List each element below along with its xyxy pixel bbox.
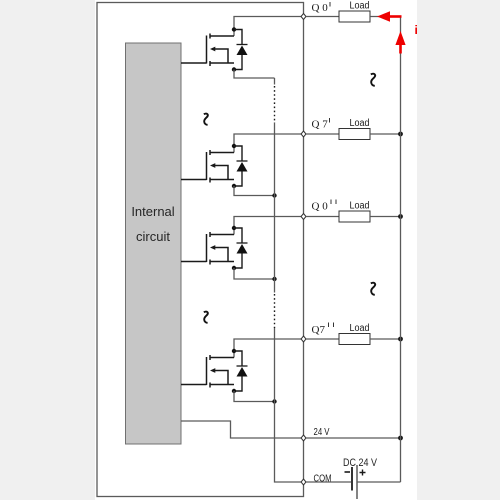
+24V bus vertical wire (400, 17, 402, 483)
svg-text:Q7: Q7 (312, 324, 326, 336)
junction dot drain M4 (232, 349, 236, 353)
terminal Q0'' (301, 200, 336, 220)
terminal Q7'' (301, 323, 334, 343)
terminal 24V (301, 427, 330, 441)
svg-text:Q 7: Q 7 (312, 119, 329, 131)
terminal Q7' (301, 118, 330, 137)
MOSFET M2 (181, 150, 234, 183)
wire Q7'' terminal to load R4 (306, 338, 339, 340)
MOSFET M3 (181, 232, 234, 265)
svg-text:Load: Load (350, 201, 370, 212)
wire source M2 to COM bus (234, 186, 275, 196)
MOSFET M1 (181, 34, 234, 67)
wire Q0' terminal to load R1 (306, 16, 339, 18)
svg-text:Internal: Internal (131, 204, 174, 219)
wire load R2 to +24V bus (370, 133, 401, 135)
junction dot source M3 (232, 266, 236, 270)
dotted continuation wire cells 3-4 (274, 294, 276, 328)
COM bus vertical wire (275, 78, 302, 482)
junction dot drain M2 (232, 144, 236, 148)
junction dot bus Q0'' (398, 214, 403, 219)
wire Q0'' terminal to load R3 (306, 216, 339, 218)
diode D1 (234, 30, 248, 70)
MOSFET M4 (181, 355, 234, 388)
svg-text:Load: Load (350, 118, 370, 129)
load R3 (339, 201, 370, 223)
svg-text:Q 0: Q 0 (312, 2, 329, 14)
junction dot drain M1 (232, 27, 236, 31)
break mark squiggle left upper (204, 114, 208, 125)
wire Q0' drain to terminal (234, 17, 304, 37)
diode D2 (234, 146, 248, 186)
wire load R3 to +24V bus (370, 216, 401, 218)
junction dot drain M3 (232, 226, 236, 230)
svg-text:Load: Load (350, 1, 370, 12)
svg-text:i: i (415, 23, 418, 37)
internal circuit block U1 (126, 43, 182, 444)
break mark squiggle right lower (371, 283, 375, 295)
junction dot bus Q7'' (398, 337, 403, 342)
svg-text:COM: COM (314, 474, 332, 485)
wire source M4 to COM bus (234, 391, 275, 402)
diode D3 (234, 228, 248, 268)
wire source M3 to COM bus (234, 268, 275, 279)
junction dot source M1 (232, 67, 236, 71)
load R2 (339, 118, 370, 140)
junction dot bus Q7' (398, 132, 403, 137)
terminal Q0' (301, 2, 330, 20)
svg-text:circuit: circuit (136, 229, 170, 244)
svg-text:Q 0: Q 0 (312, 201, 329, 213)
module boundary box (97, 3, 304, 497)
wire 24V feed from internal circuit (181, 421, 301, 438)
wire Q7' terminal to load R2 (306, 133, 339, 135)
break mark squiggle right upper (371, 74, 375, 86)
break mark squiggle left lower (204, 312, 208, 323)
svg-text:24 V: 24 V (314, 427, 330, 438)
current arrow i left into load (377, 11, 402, 21)
wire Q0'' drain to terminal (234, 217, 304, 235)
junction dot COM bus cell2 (272, 193, 276, 197)
junction dot COM bus cell4 (272, 399, 276, 403)
wire Q7'' drain to terminal (234, 339, 304, 358)
load R1 (339, 1, 370, 23)
wire 24V terminal to +24V bus (306, 437, 401, 439)
terminal COM (301, 474, 332, 486)
dotted continuation wire cells 1-2 (274, 86, 276, 123)
wire Q7' drain to terminal (234, 134, 304, 153)
wire battery to +24V bus (357, 481, 401, 483)
battery BT1 DC 24V (343, 457, 378, 499)
svg-text:DC 24 V: DC 24 V (343, 457, 378, 469)
wire load R4 to +24V bus (370, 338, 401, 340)
diode D4 (234, 351, 248, 391)
wire COM terminal to battery (306, 481, 351, 483)
junction dot COM bus cell3 (272, 277, 276, 281)
wire load R1 to +24V bus (370, 16, 401, 18)
junction dot source M2 (232, 184, 236, 188)
wire source M1 to COM bus (234, 70, 275, 79)
load R4 (339, 323, 370, 345)
current arrow i up (395, 31, 405, 54)
junction dot bus 24V (398, 436, 403, 441)
current label i (415, 23, 418, 37)
junction dot source M4 (232, 389, 236, 393)
svg-text:Load: Load (350, 323, 370, 334)
